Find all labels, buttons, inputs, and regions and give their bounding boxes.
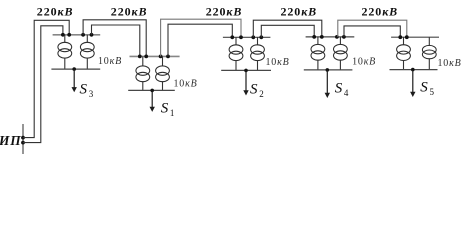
svg-text:5: 5 (430, 87, 435, 97)
substation S4: 10кВ bus (304, 69, 353, 71)
svg-text:S: S (80, 81, 88, 97)
transformer T6 (substation S2) (251, 37, 265, 70)
transformer T8 (substation S4) (334, 37, 348, 70)
svg-text:220кВ: 220кВ (281, 5, 318, 19)
load arrow S3 (72, 67, 77, 92)
node: S1 bus, outgoing line 2 (166, 55, 170, 59)
transformer T7 (substation S4) (311, 37, 325, 70)
wire: line S2 to S4 (inner circuit) (261, 25, 314, 37)
node: S1 bus, incoming line connection 1 (138, 55, 142, 59)
node: S1 bus, incoming line connection 2 (144, 55, 148, 59)
load arrow S4 (325, 68, 330, 98)
wire: line 2 ИП to substation S3 (inner circuit) (23, 26, 63, 143)
substation S5: 10кВ bus (390, 69, 438, 71)
svg-text:S: S (161, 101, 169, 117)
node: ИП feeder tap 2 (21, 141, 25, 145)
substation S2: 10кВ bus (221, 69, 271, 71)
load arrow S2 (243, 69, 248, 96)
svg-text:3: 3 (89, 89, 94, 99)
transformer T9 (substation S5) (397, 37, 411, 69)
svg-text:220кВ: 220кВ (111, 5, 148, 19)
node: S4 bus, incoming line connection 1 (312, 35, 316, 39)
svg-text:10кВ: 10кВ (98, 56, 122, 67)
source bus ИП (vertical) (22, 124, 24, 154)
svg-text:S: S (250, 81, 258, 97)
wire: line 1 ИП to substation S3 (outer circuit) (23, 20, 69, 137)
substation S1: 220кВ bus (130, 55, 180, 57)
node: S2 bus, outgoing line 1 (251, 35, 255, 39)
svg-text:220кВ: 220кВ (362, 5, 399, 19)
wire: line S1 to S2 (inner circuit) (168, 24, 232, 56)
node: S2 bus, outgoing line 2 (259, 35, 263, 39)
substation S3: 220кВ bus (53, 34, 101, 36)
node: S2 bus, incoming line connection 2 (239, 35, 243, 39)
transformer T3 (substation S1) (136, 56, 150, 90)
node: S3 bus, outgoing line 3 (81, 33, 85, 37)
transformer T10 (substation S5) (422, 37, 436, 69)
svg-text:2: 2 (259, 89, 264, 99)
node: ИП feeder tap 1 (21, 136, 25, 140)
node: S4 bus, incoming line connection 2 (320, 35, 324, 39)
svg-text:10кВ: 10кВ (174, 78, 198, 89)
load arrow S5 (410, 68, 415, 97)
svg-text:S: S (420, 79, 428, 95)
node: S1 bus, outgoing line 1 (159, 55, 163, 59)
node: S3 bus, line-1 connection (67, 33, 71, 37)
node: S3 bus, outgoing line 4 (90, 33, 94, 37)
substation S5: 220кВ bus (391, 36, 439, 38)
svg-text:1: 1 (170, 108, 175, 118)
transformer T2 (substation S3) (80, 35, 94, 69)
node: S4 bus, outgoing line 2 (342, 35, 346, 39)
svg-text:S: S (335, 81, 343, 97)
wire: line S4 to S5 (inner circuit) (344, 26, 400, 37)
substation S2: 220кВ bus (223, 36, 271, 38)
node: S5 bus, incoming line connection 1 (398, 35, 402, 39)
wire: line S1 to S2 (outer circuit) (161, 19, 241, 56)
svg-text:10кВ: 10кВ (438, 58, 462, 69)
node: S4 bus, outgoing line 1 (335, 35, 339, 39)
substation S3: 10кВ bus (51, 68, 100, 70)
svg-text:220кВ: 220кВ (206, 5, 243, 19)
svg-text:10кВ: 10кВ (352, 57, 376, 68)
node: S5 bus, incoming line connection 2 (405, 35, 409, 39)
load arrow S1 (150, 89, 155, 112)
svg-text:220кВ: 220кВ (37, 5, 74, 19)
node: S2 bus, incoming line connection 1 (230, 35, 234, 39)
wire: line S3 to S1 (outer circuit) (83, 20, 146, 57)
substation S4: 220кВ bus (306, 36, 355, 38)
wire: line S3 to S1 (inner circuit) (92, 25, 140, 56)
wire: line S2 to S4 (outer circuit) (253, 20, 321, 37)
svg-text:10кВ: 10кВ (266, 57, 290, 68)
svg-text:ИП: ИП (0, 133, 21, 148)
svg-text:4: 4 (344, 88, 349, 98)
transformer T4 (substation S1) (156, 56, 170, 90)
transformer T1 (substation S3) (58, 35, 72, 69)
transformer T5 (substation S2) (229, 37, 243, 70)
wire: line S4 to S5 (outer circuit) (338, 20, 407, 37)
substation S1: 10кВ bus (128, 89, 175, 91)
node: S3 bus, line-2 connection (61, 33, 65, 37)
